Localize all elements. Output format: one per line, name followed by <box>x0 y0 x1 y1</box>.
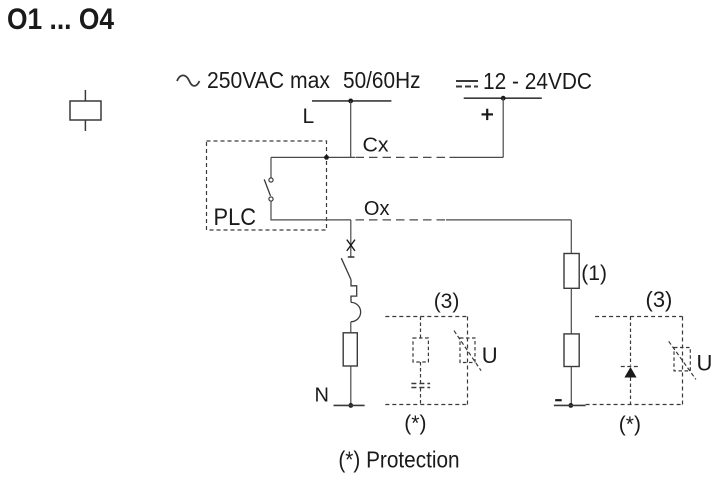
label + <box>482 109 494 120</box>
wire L down to Cx <box>350 101 352 158</box>
protection box 2 right edge <box>682 317 684 405</box>
svg-text:12 - 24VDC: 12 - 24VDC <box>483 68 592 94</box>
node dot on + bar <box>501 96 506 101</box>
snubber branch wire top <box>420 317 422 339</box>
terminal bar N <box>334 404 365 406</box>
svg-text:(*): (*) <box>619 413 641 436</box>
PLC switch bottom contact <box>269 197 273 201</box>
wire + down to Cx line <box>502 98 504 157</box>
wire to load resistor <box>350 322 352 333</box>
node dot on L bar <box>348 99 353 104</box>
varistor 2 body (dashed) <box>674 348 690 371</box>
node dot at N <box>348 403 353 408</box>
wire load resistor to N <box>350 366 352 405</box>
wire Cx solid segment <box>271 156 355 158</box>
protection box 2 bottom edge <box>586 404 683 406</box>
snubber wire bottom <box>420 388 422 405</box>
label minus <box>555 399 562 401</box>
diode branch wire top <box>630 317 632 366</box>
svg-text:250VAC max: 250VAC max <box>207 67 330 93</box>
svg-text:L: L <box>303 105 315 128</box>
snubber resistor (dashed) <box>413 338 428 362</box>
svg-text:50/60Hz: 50/60Hz <box>343 67 421 93</box>
snubber wire middle <box>420 362 422 383</box>
PLC switch wire from Cx down <box>270 157 272 178</box>
wire to minus terminal <box>570 367 572 406</box>
terminal bar L <box>312 100 391 102</box>
svg-text:U: U <box>482 343 498 368</box>
wire between resistors <box>570 288 572 334</box>
relay coil K (output symbol) <box>70 90 101 131</box>
PLC switch top contact <box>269 178 273 182</box>
wire load chain down from Ox <box>350 220 352 257</box>
wire Ox solid to load branch <box>446 219 571 221</box>
svg-text:(*): (*) <box>404 412 426 435</box>
junction dot Cx at PLC box edge <box>324 155 329 160</box>
svg-text:(3): (3) <box>434 290 460 313</box>
svg-text:O1 ... O4: O1 ... O4 <box>7 3 114 36</box>
load resistor DC <box>564 334 579 367</box>
wire Ox solid from switch <box>271 201 351 220</box>
AC sine symbol <box>177 75 200 86</box>
diode cathode bar (dashed) <box>621 366 640 368</box>
DC symbol <box>456 81 478 87</box>
wire Cx solid to + <box>450 156 504 158</box>
svg-text:(1): (1) <box>581 262 607 285</box>
svg-text:Cx: Cx <box>363 134 389 156</box>
svg-text:PLC: PLC <box>214 204 257 231</box>
breakpoint X mark <box>347 240 355 251</box>
varistor 1 diagonal <box>454 331 481 371</box>
contact end bar <box>348 256 355 258</box>
snubber capacitor plates <box>411 384 430 388</box>
wire Cx dashed segment <box>356 156 450 158</box>
switch blade (load contact) <box>341 258 351 279</box>
svg-text:U: U <box>697 351 713 376</box>
PLC switch blade <box>264 179 270 196</box>
resistor (1) <box>564 254 579 289</box>
protection box 1 right edge <box>467 317 469 405</box>
breaker magnetic coil loop <box>351 302 361 321</box>
node dot at minus <box>568 403 573 408</box>
svg-text:N: N <box>315 385 329 407</box>
PLC dashed box <box>207 141 327 230</box>
protection box 2 top edge <box>595 316 682 318</box>
load resistor <box>343 333 357 366</box>
diode body (filled triangle) <box>624 367 636 378</box>
svg-text:Ox: Ox <box>364 198 390 220</box>
protection box 1 bottom edge <box>385 404 467 406</box>
terminal bar + (DC) <box>464 97 542 99</box>
svg-text:(3): (3) <box>646 287 673 312</box>
protection box 1 top edge <box>385 316 467 318</box>
varistor 1 body (dashed) <box>460 338 475 363</box>
diode branch wire bottom <box>630 378 632 405</box>
varistor 2 diagonal <box>669 341 696 379</box>
breaker thermal element <box>351 280 357 303</box>
wire DC load branch down <box>570 220 572 254</box>
svg-text:(*) Protection: (*) Protection <box>338 446 459 472</box>
terminal bar minus <box>554 404 586 406</box>
wire Ox dashed segment <box>356 219 447 221</box>
